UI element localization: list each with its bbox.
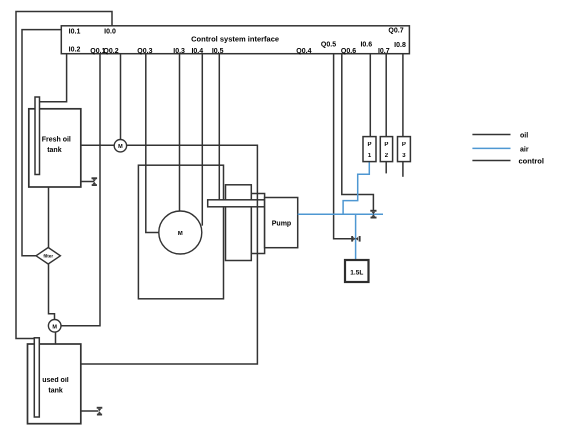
wire I0.4 to motor M3 right	[201, 54, 203, 226]
svg-text:tank: tank	[47, 147, 62, 154]
svg-text:Q0.3: Q0.3	[137, 48, 152, 55]
wire I0.5 to shaft sensor	[218, 54, 220, 200]
svg-text:oil: oil	[520, 133, 528, 140]
svg-text:tank: tank	[48, 387, 63, 394]
svg-text:I0.2: I0.2	[69, 47, 81, 54]
reservoir 1.5L box	[345, 260, 369, 282]
oil pipe loop: fresh tank to used tank	[81, 145, 258, 364]
motor M1 fresh oil pump	[114, 140, 126, 152]
wire I0.3 to motor M3 top	[179, 54, 181, 212]
wire to pressure sensor P3	[402, 54, 404, 137]
wire I0.1 to filter	[22, 30, 61, 256]
svg-text:Q0.4: Q0.4	[296, 48, 311, 55]
legend air line	[472, 146, 528, 153]
svg-text:Q0.2: Q0.2	[103, 48, 118, 55]
pressure sensor P2	[380, 137, 392, 162]
pump M2 to used tank pipe	[55, 332, 57, 344]
svg-text:M: M	[118, 144, 123, 150]
wire to pressure sensor P1	[369, 54, 371, 137]
wire to pressure sensor P2	[385, 54, 387, 137]
svg-text:1.5L: 1.5L	[350, 270, 363, 277]
svg-text:Q0.5: Q0.5	[321, 42, 336, 49]
svg-text:M: M	[52, 324, 57, 330]
fresh tank level sensor tube	[35, 97, 40, 175]
filter diamond	[36, 248, 60, 265]
valve V2 on reservoir line	[351, 236, 360, 242]
svg-text:P: P	[367, 142, 371, 148]
legend control line	[472, 157, 544, 166]
svg-text:used oil: used oil	[42, 377, 69, 384]
used tank level sensor tube	[34, 338, 39, 417]
svg-text:control: control	[519, 157, 544, 166]
wire Q0.1 to motor M2	[61, 54, 100, 326]
wire Q0.5 to valve V2	[334, 54, 352, 239]
filter to pump M2 pipe	[49, 264, 55, 320]
svg-text:I0.8: I0.8	[394, 42, 406, 49]
svg-text:I0.6: I0.6	[360, 42, 372, 49]
control system interface box U1	[61, 26, 409, 54]
motor M2 used oil pump	[48, 320, 61, 333]
wire Q0.2 to motor M1	[120, 54, 122, 140]
used oil tank	[28, 344, 81, 424]
fresh oil tank	[29, 109, 81, 187]
air line from pump outlet	[298, 213, 383, 215]
svg-text:I0.4: I0.4	[191, 48, 203, 55]
svg-text:filter: filter	[43, 254, 53, 259]
svg-text:Q0.7: Q0.7	[388, 28, 403, 35]
svg-text:Q0.6: Q0.6	[341, 48, 356, 55]
fresh tank drain line	[81, 181, 94, 183]
svg-text:Fresh oil: Fresh oil	[42, 136, 71, 143]
fresh tank outlet to filter	[48, 187, 50, 248]
wire I0.0 to used tank level sensor	[16, 12, 112, 339]
fresh tank drain valve	[92, 177, 98, 186]
used tank drain line	[81, 410, 99, 412]
svg-text:air: air	[520, 146, 529, 153]
used tank drain valve	[97, 407, 103, 416]
svg-text:Control system interface: Control system interface	[191, 34, 279, 43]
svg-text:I0.1: I0.1	[69, 29, 81, 36]
coupling housing small rect	[251, 194, 264, 254]
pressure sensor P3	[398, 137, 411, 162]
wire Q0.6 to valve V1	[342, 54, 374, 210]
coupling housing box	[226, 185, 252, 261]
shaft bar	[208, 200, 265, 207]
sensor stub below P2	[385, 162, 387, 174]
svg-text:I0.0: I0.0	[104, 29, 116, 36]
pump box	[265, 198, 298, 248]
svg-text:M: M	[178, 231, 183, 237]
svg-text:I0.5: I0.5	[212, 48, 224, 55]
sensor stub below P3	[402, 162, 404, 177]
legend oil line	[472, 133, 528, 140]
valve V1 on pump outlet line	[370, 210, 376, 219]
svg-text:P: P	[402, 142, 406, 148]
svg-text:P: P	[384, 142, 388, 148]
pressure sensor P1	[363, 137, 376, 162]
svg-text:I0.7: I0.7	[378, 48, 390, 55]
air line to reservoir	[355, 214, 357, 260]
motor M3 main motor	[159, 211, 202, 254]
motor enclosure box	[138, 165, 223, 299]
wire Q0.3 to motor M3 left	[146, 54, 159, 233]
svg-text:Pump: Pump	[272, 220, 291, 227]
svg-text:I0.3: I0.3	[173, 48, 185, 55]
wire I0.2 to fresh tank level sensor	[40, 54, 67, 102]
air line from P1 to pump outlet line	[343, 162, 369, 215]
